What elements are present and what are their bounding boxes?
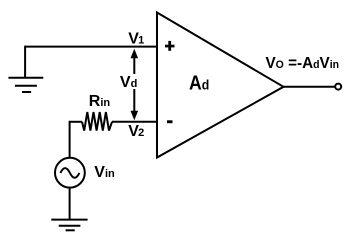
svg-text:VO =-AdVin: VO =-AdVin xyxy=(266,55,340,72)
svg-text:Vd: Vd xyxy=(120,74,137,91)
svg-text:Rin: Rin xyxy=(89,93,111,110)
svg-text:V1: V1 xyxy=(128,30,144,47)
svg-text:V2: V2 xyxy=(128,123,144,140)
svg-text:Vin: Vin xyxy=(94,164,115,181)
